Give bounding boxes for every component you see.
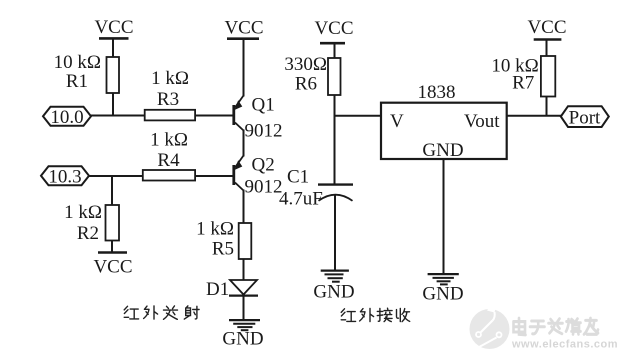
transistor Q1 (PNP 9012): [234, 95, 283, 142]
resistor R2: [64, 202, 119, 244]
wire IC GND pin to ground: [443, 159, 445, 274]
wire IC Vout to Port (junction with R7): [507, 115, 561, 117]
svg-text:9012: 9012: [245, 121, 283, 142]
wire R7 to Vout node: [546, 97, 548, 116]
svg-text:R5: R5: [212, 239, 234, 260]
svg-text:1 kΩ: 1 kΩ: [151, 68, 189, 89]
svg-text:R1: R1: [66, 71, 88, 92]
wire R1 to node 10.0: [112, 93, 114, 116]
svg-text:www.elecfans.com: www.elecfans.com: [511, 339, 618, 351]
transistor Q2 (PNP 9012): [234, 155, 283, 198]
label: 红外接收 (infrared receive): [341, 308, 410, 321]
wire Q2 collector to R5: [243, 190, 245, 224]
wire node 10.0 to R3: [91, 115, 145, 117]
resistor R4: [143, 130, 195, 181]
power symbol VCC (top-left): [94, 17, 133, 38]
svg-text:VCC: VCC: [93, 257, 132, 278]
resistor R3: [145, 68, 195, 120]
svg-text:R3: R3: [157, 89, 179, 110]
ground (below C1): [313, 271, 354, 303]
IC U1 1838 infrared receiver: [381, 82, 507, 161]
svg-text:Q2: Q2: [252, 155, 275, 176]
svg-text:D1: D1: [206, 279, 229, 300]
svg-text:R7: R7: [512, 73, 534, 94]
svg-text:Q1: Q1: [252, 95, 275, 116]
svg-text:1 kΩ: 1 kΩ: [196, 219, 234, 240]
power symbol VCC (top-center): [224, 18, 263, 39]
power symbol VCC (top-right): [527, 17, 566, 40]
ground (below IC): [422, 274, 463, 304]
svg-text:330Ω: 330Ω: [284, 54, 327, 75]
wire node 10.3 to R4 (junction with R2): [89, 175, 143, 177]
wire D1 to ground: [243, 296, 245, 320]
svg-text:4.7uF: 4.7uF: [279, 189, 323, 210]
svg-text:1838: 1838: [418, 82, 456, 103]
resistor R5: [196, 219, 251, 260]
svg-text:VCC: VCC: [527, 17, 566, 38]
diode D1 (LED): [206, 279, 258, 300]
svg-text:R2: R2: [77, 223, 99, 244]
resistor R7: [491, 56, 555, 97]
svg-text:VCC: VCC: [314, 18, 353, 39]
wire R4 to Q2 base: [195, 175, 233, 177]
svg-text:10 kΩ: 10 kΩ: [54, 52, 101, 73]
watermark text 电子发烧友: [514, 318, 599, 335]
wire VCC to R6: [334, 43, 336, 58]
svg-text:R4: R4: [157, 150, 180, 171]
wire node to IC V pin: [335, 115, 382, 117]
wire VCC to R7: [546, 40, 548, 57]
power symbol VCC (middle): [314, 18, 353, 43]
node Port: [561, 106, 609, 128]
resistor R6: [284, 54, 340, 95]
svg-text:GND: GND: [222, 329, 263, 350]
capacitor C1 4.7uF (polarized): [279, 167, 353, 210]
wire C1 to ground: [334, 195, 336, 271]
svg-text:10.0: 10.0: [50, 107, 83, 128]
power symbol VCC (bottom-left): [93, 253, 132, 278]
svg-text:V: V: [390, 111, 404, 132]
watermark logo (elecfans): [470, 298, 510, 350]
label: 红外发射 (infrared transmit): [124, 306, 199, 319]
wire junction down to R2: [111, 176, 113, 205]
svg-text:GND: GND: [422, 284, 463, 305]
svg-text:10.3: 10.3: [48, 167, 81, 188]
svg-text:VCC: VCC: [94, 17, 133, 38]
wire R2 to VCC (bottom): [111, 241, 113, 253]
node 10.0: [43, 107, 91, 128]
svg-text:C1: C1: [287, 167, 309, 188]
svg-text:Port: Port: [569, 108, 601, 129]
svg-text:GND: GND: [313, 282, 354, 303]
node 10.3: [41, 166, 89, 187]
svg-text:9012: 9012: [245, 177, 283, 198]
wire R3 to Q1 base: [195, 115, 233, 117]
svg-text:1 kΩ: 1 kΩ: [64, 202, 102, 223]
svg-text:1 kΩ: 1 kΩ: [150, 130, 188, 151]
svg-text:GND: GND: [422, 140, 463, 161]
wire VCC to R1: [112, 38, 114, 57]
svg-text:VCC: VCC: [224, 18, 263, 39]
wire VCC to Q1 emitter: [243, 39, 245, 97]
ground (below D1): [222, 320, 263, 349]
wire R6 down to C1 and node to IC V pin: [334, 95, 336, 185]
wire R5 to D1: [243, 259, 245, 280]
svg-text:Vout: Vout: [464, 111, 500, 132]
wire Q1 collector to Q2 emitter: [243, 130, 245, 157]
resistor R1: [54, 52, 119, 93]
svg-text:R6: R6: [295, 74, 317, 95]
